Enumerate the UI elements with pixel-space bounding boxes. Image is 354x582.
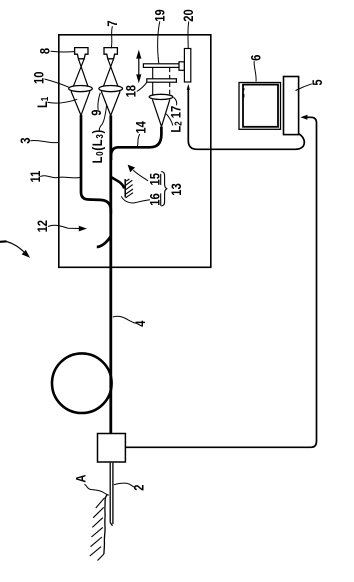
- enclosure box 3: [59, 35, 211, 267]
- svg-text:6: 6: [248, 55, 263, 61]
- svg-text:19: 19: [153, 9, 168, 21]
- svg-text:18: 18: [123, 85, 138, 97]
- beam line dashed: [169, 68, 171, 95]
- needle 2: [110, 463, 113, 526]
- leader L0(L3): [99, 105, 106, 131]
- svg-text:20: 20: [181, 9, 196, 21]
- leader 18: [137, 82, 147, 91]
- leader 5: [296, 84, 312, 91]
- svg-text:A: A: [73, 475, 88, 483]
- arrow 15: [133, 170, 148, 181]
- leader 9: [98, 93, 100, 110]
- arrow into unit: [300, 115, 307, 120]
- svg-text:10: 10: [31, 72, 46, 84]
- probe head: [98, 434, 126, 463]
- light source 8: [75, 48, 88, 59]
- leader 6: [254, 61, 256, 82]
- main fiber L0(L3): [109, 116, 112, 434]
- mirror 16: [124, 179, 126, 197]
- system unit 5: [284, 77, 299, 135]
- leader 16: [121, 196, 150, 203]
- screen buttons: [243, 88, 245, 98]
- signal line with arrow: [188, 90, 304, 150]
- leader L2 to beam: [166, 114, 173, 126]
- svg-text:L2 17: L2 17: [169, 106, 184, 133]
- svg-text:2: 2: [131, 484, 146, 490]
- leader 10: [45, 79, 70, 87]
- svg-text:9: 9: [89, 110, 104, 116]
- leader 8: [51, 50, 76, 53]
- leader 20: [187, 21, 190, 48]
- leader 7: [111, 26, 112, 48]
- svg-text:7: 7: [105, 20, 120, 26]
- brace 13: [161, 172, 167, 207]
- svg-text:5: 5: [310, 79, 325, 85]
- leader 4: [113, 316, 136, 323]
- apparatus arrow 1: [0, 240, 7, 243]
- leader 11: [40, 176, 80, 178]
- svg-text:13: 13: [169, 183, 184, 195]
- stage bar 19: [143, 64, 179, 68]
- fiber coil: [52, 353, 112, 413]
- monitor 6: [239, 83, 281, 130]
- svg-text:14: 14: [134, 121, 149, 133]
- leader L1: [48, 99, 78, 103]
- leader A: [85, 484, 109, 495]
- beam cone L2: [152, 100, 169, 127]
- surface A: [104, 495, 107, 554]
- svg-text:L0(L3): L0(L3): [90, 129, 105, 163]
- leader 19: [158, 21, 160, 63]
- coupler stub 12: [97, 237, 111, 248]
- detector 20: [184, 49, 190, 83]
- beam cone source 7: [101, 59, 120, 116]
- hatching A: [90, 498, 105, 561]
- fiber 14: [111, 127, 161, 160]
- leader 17 to lens: [174, 97, 177, 105]
- lens L2: [149, 94, 173, 99]
- leader and arrow 12: [48, 225, 80, 228]
- screen: [243, 85, 278, 127]
- second lens: [99, 86, 123, 92]
- light source 7: [104, 48, 117, 59]
- hatching mirror 16: [126, 179, 134, 198]
- lens 10: [69, 86, 93, 92]
- leader 14: [137, 134, 140, 146]
- fiber 11 from source 8: [81, 115, 111, 214]
- beam cone source 8: [71, 59, 90, 116]
- double arrow scan 18: [138, 57, 140, 76]
- leader 2: [114, 483, 134, 487]
- mirror branch fiber: [111, 177, 124, 189]
- leader 3: [30, 140, 58, 142]
- bar 18: [147, 79, 177, 82]
- cable to probe: [126, 117, 317, 447]
- beam line solid: [152, 68, 154, 95]
- mount block: [179, 62, 184, 71]
